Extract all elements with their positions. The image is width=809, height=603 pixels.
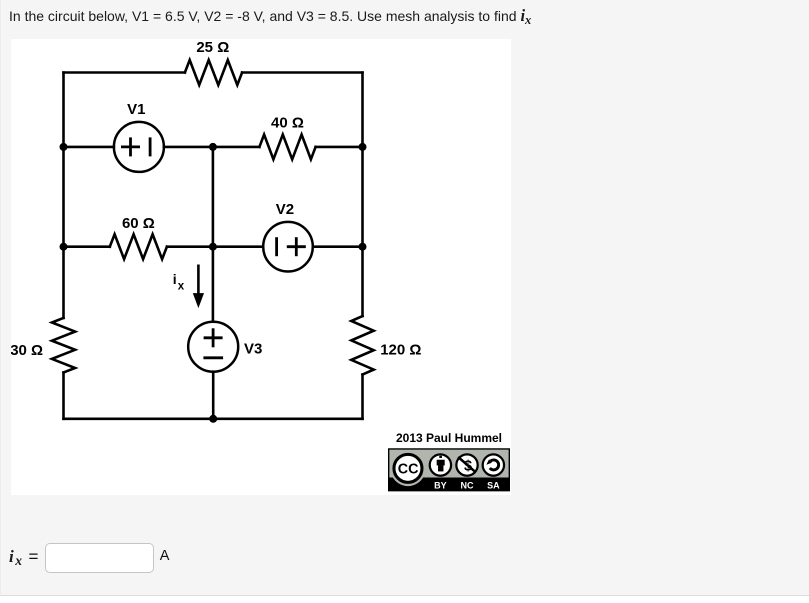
wire: 40-ohm resistor to node C xyxy=(316,146,363,149)
resistor R 25 ohm xyxy=(185,60,242,85)
current arrow ix (downward) xyxy=(193,266,204,308)
svg-text:x: x xyxy=(178,281,185,293)
label 30 ohm xyxy=(10,342,43,359)
wire: middle vertical, node B to node E xyxy=(212,147,215,247)
label ix xyxy=(173,271,185,293)
resistor R 120 ohm xyxy=(351,316,373,374)
wire: left outer vertical upper segment xyxy=(62,73,65,318)
wire: node D to 60-ohm resistor xyxy=(64,245,110,248)
wire: V1 right terminal to node B xyxy=(164,146,213,149)
label V2 xyxy=(276,201,294,218)
svg-text:V3: V3 xyxy=(244,341,262,358)
svg-text:NC: NC xyxy=(461,481,474,491)
wire: top loop segment left of 25-ohm resistor xyxy=(64,71,185,74)
svg-text:120 Ω: 120 Ω xyxy=(380,341,421,358)
answer row xyxy=(9,542,309,576)
node E junction dot xyxy=(209,243,217,251)
node A junction dot xyxy=(60,143,68,151)
wire: left outer vertical lower segment xyxy=(62,373,65,419)
wire: node E down to V3 top terminal xyxy=(212,247,215,322)
svg-text:CC: CC xyxy=(398,462,419,478)
wire: right outer vertical lower segment xyxy=(361,375,364,419)
svg-text:SA: SA xyxy=(487,481,500,491)
node B junction dot xyxy=(209,143,217,151)
svg-text:V1: V1 xyxy=(127,101,145,118)
label 40 ohm xyxy=(271,115,304,132)
voltage source V3 (plus top, minus bottom) xyxy=(188,322,238,372)
resistor R 40 ohm xyxy=(259,135,315,160)
label V1 xyxy=(127,101,145,118)
node G junction dot (bottom rail) xyxy=(209,415,217,423)
BY NC SA captions xyxy=(434,481,500,491)
NC (non-commercial) icon xyxy=(456,454,477,475)
label 60 ohm xyxy=(122,215,155,232)
wire: bottom rail xyxy=(64,418,363,421)
CC license badge frame xyxy=(389,449,510,491)
wire: 60-ohm resistor to node E xyxy=(167,245,213,248)
wire: node E to V2 left terminal xyxy=(213,245,263,248)
problem statement text xyxy=(9,6,531,26)
wire: right outer vertical upper segment xyxy=(361,73,364,317)
resistor R 30 ohm xyxy=(52,318,75,373)
node F junction dot xyxy=(359,243,367,251)
wire: node A to V1 left terminal xyxy=(64,146,114,149)
svg-text:40 Ω: 40 Ω xyxy=(271,115,304,132)
svg-text:30 Ω: 30 Ω xyxy=(11,342,43,359)
svg-text:60 Ω: 60 Ω xyxy=(122,215,155,232)
wire: V3 bottom terminal to bottom rail node G xyxy=(212,372,215,419)
node C junction dot xyxy=(359,143,367,151)
label V3 xyxy=(244,341,262,358)
svg-text:BY: BY xyxy=(434,481,447,491)
node D junction dot xyxy=(60,243,68,251)
svg-text:25 Ω: 25 Ω xyxy=(196,40,229,56)
label 120 ohm xyxy=(380,341,421,358)
svg-text:V2: V2 xyxy=(276,201,294,218)
wire: node B to 40-ohm resistor xyxy=(213,146,260,149)
BY (attribution) icon xyxy=(430,454,451,475)
SA (share-alike) icon xyxy=(483,454,504,475)
white schematic canvas xyxy=(11,39,511,495)
voltage source V1 (plus left, bar right) xyxy=(114,122,164,172)
credit text xyxy=(383,431,515,445)
label 25 ohm xyxy=(196,39,229,56)
svg-text:i: i xyxy=(173,271,177,287)
CC logo circle xyxy=(390,451,425,486)
resistor R 60 ohm xyxy=(110,234,167,259)
wire: top loop segment right of 25-ohm resistor xyxy=(242,71,362,74)
wire: V2 right terminal to node F xyxy=(313,245,363,248)
voltage source V2 (bar left, plus right) xyxy=(263,222,313,272)
